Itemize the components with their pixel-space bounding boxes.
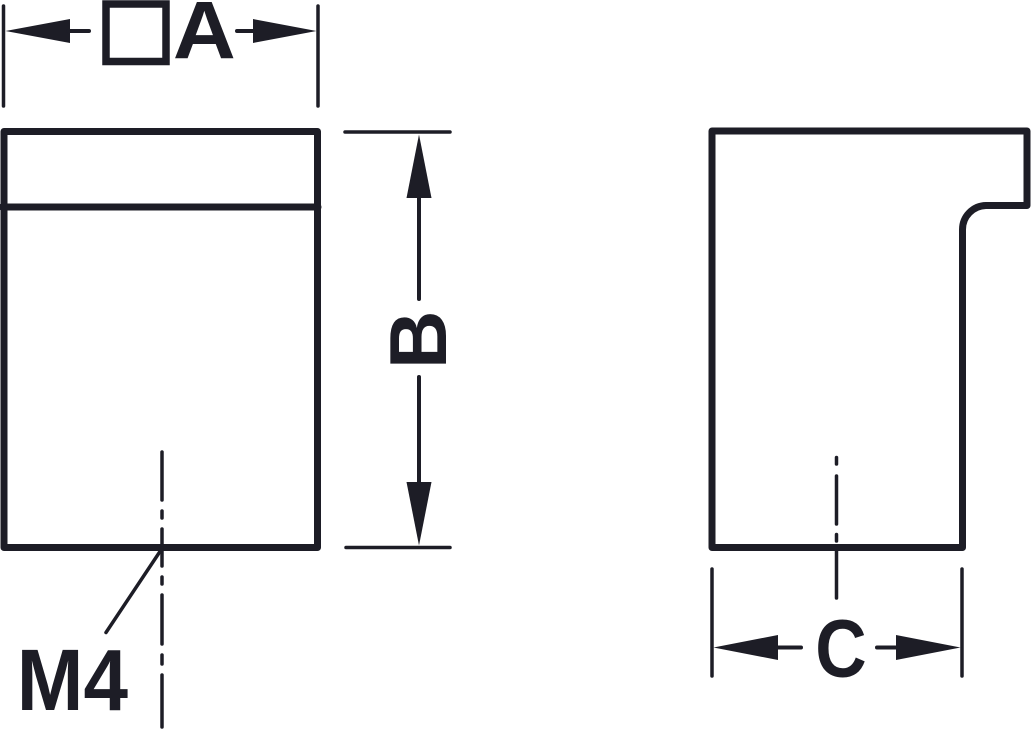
- dim B extension line bottom: [346, 546, 450, 550]
- front view neck line: [2, 204, 318, 211]
- dim A arrow right: [237, 19, 317, 43]
- dim B extension line top: [345, 130, 450, 134]
- side view centerline: [835, 458, 839, 599]
- svg-text:C: C: [815, 604, 866, 695]
- dim A arrow left: [6, 19, 90, 43]
- svg-text:M4: M4: [17, 631, 129, 729]
- square symbol: [106, 4, 166, 62]
- svg-text:A: A: [173, 0, 236, 76]
- side view outline: [712, 131, 1027, 548]
- dim C extension line right: [960, 569, 964, 676]
- dim C extension line left: [710, 569, 714, 676]
- dim B arrow down: [407, 377, 432, 546]
- dim C arrow left: [714, 635, 802, 660]
- dim B arrow up: [407, 135, 432, 300]
- M4 leader line: [106, 549, 162, 633]
- front view centerline: [160, 452, 164, 727]
- front view body outline: [4, 132, 318, 548]
- dim A extension line right: [316, 6, 320, 106]
- dim A extension line left: [2, 6, 6, 106]
- svg-text:B: B: [374, 311, 464, 370]
- dim C arrow right: [877, 635, 961, 660]
